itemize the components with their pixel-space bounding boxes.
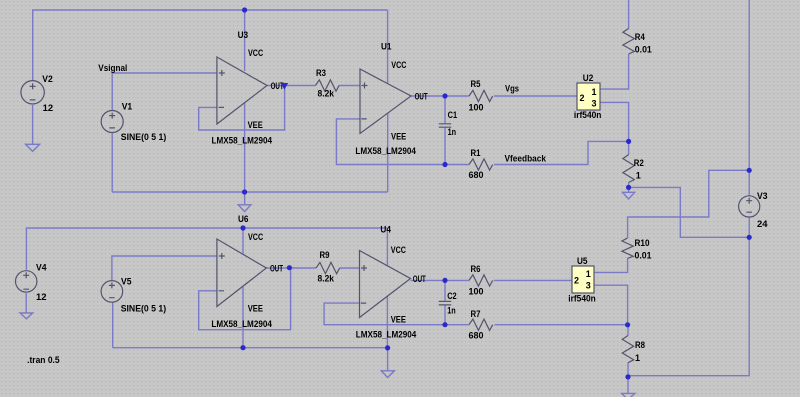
- voltage source V4, value 12: [16, 263, 47, 303]
- resistor R3, value 8.2k: [315, 68, 339, 99]
- svg-text:0.01: 0.01: [635, 45, 652, 55]
- svg-text:R2: R2: [634, 158, 644, 168]
- ground below V2: [26, 104, 40, 151]
- svg-text:100: 100: [469, 103, 484, 113]
- svg-text:8.2k: 8.2k: [318, 274, 335, 284]
- svg-text:Vsignal: Vsignal: [98, 63, 127, 73]
- svg-text:V1: V1: [122, 102, 133, 112]
- svg-text:V4: V4: [36, 263, 47, 273]
- svg-text:C2: C2: [447, 291, 457, 301]
- wire U5 source pin3 down to R8 top node: [594, 285, 628, 325]
- svg-text:VCC: VCC: [248, 48, 264, 58]
- wire R3 to U1 +in: [339, 85, 360, 87]
- node Vfeedback junction at R2 top: [626, 139, 631, 144]
- wire U6 VEE pin: [242, 287, 244, 348]
- wire R7 to R8 top node: [495, 324, 628, 326]
- svg-text:OUT: OUT: [271, 81, 284, 91]
- wire V1 minus to VEE bus: [111, 133, 113, 192]
- wire node Vsignal: V1 plus to U3 +in: [112, 73, 217, 110]
- svg-text:V2: V2: [42, 74, 53, 84]
- capacitor C2, value 1n: [439, 280, 457, 324]
- svg-text:U6: U6: [238, 214, 249, 224]
- wire R2 bottom lead: [628, 183, 630, 188]
- wire R8 top lead: [627, 325, 629, 336]
- svg-text:2: 2: [574, 276, 579, 286]
- ground on top VEE bus at U3: [238, 192, 251, 212]
- svg-text:VEE: VEE: [391, 131, 406, 141]
- svg-text:12: 12: [43, 103, 54, 113]
- voltage source V3, value 24: [739, 191, 768, 229]
- ground below V4: [20, 292, 33, 319]
- wire R9 to U4 +in: [340, 267, 360, 269]
- svg-text:R8: R8: [635, 340, 645, 350]
- node bottom VEE bus at U4 VEE / ground: [385, 345, 390, 350]
- svg-text:OUT: OUT: [270, 263, 283, 273]
- svg-text:1: 1: [586, 269, 591, 279]
- wire R2 bottom / ground to V3 minus: [629, 187, 750, 237]
- svg-text:LMX58_LM2904: LMX58_LM2904: [356, 330, 417, 340]
- node bottom VEE bus at U6 VEE: [240, 345, 245, 350]
- node junction on V+ rail at U3 VCC: [242, 7, 247, 12]
- wire U1 VEE pin: [387, 113, 389, 192]
- svg-text:1: 1: [636, 171, 641, 181]
- wire U2 source pin3 down to Vfeedback node: [600, 102, 629, 141]
- node C2 bottom / R7 left: [442, 322, 447, 327]
- wire R1 to jog up to Vfeedback node: [494, 141, 629, 164]
- capacitor C1, value 1n: [439, 96, 457, 165]
- svg-text:U3: U3: [238, 30, 249, 40]
- svg-text:2: 2: [580, 93, 585, 103]
- wire U1 feedback: -in to C1 bottom node: [336, 119, 445, 165]
- node R2 bottom / ground: [626, 185, 631, 190]
- svg-text:U4: U4: [380, 225, 391, 235]
- svg-text:R3: R3: [316, 68, 326, 78]
- voltage source V5, value SINE(0 5 1): [101, 277, 166, 314]
- node V3 minus / R2 branch: [747, 235, 752, 240]
- wire U4 VCC pin: [386, 228, 388, 266]
- wire VEE bus (bottom section): [113, 347, 389, 349]
- node C1 bottom / R1 left: [442, 162, 447, 167]
- svg-text:8.2k: 8.2k: [318, 89, 335, 99]
- node U3 OUT junction marker: [281, 83, 289, 90]
- nmos U2 irf540n: [574, 73, 602, 120]
- voltage source V1, value SINE(0 5 1): [101, 102, 166, 143]
- wire C1 to R1: [445, 164, 469, 166]
- wire U3 OUT to R3: [267, 85, 315, 87]
- svg-text:LMX58_LM2904: LMX58_LM2904: [355, 146, 416, 156]
- svg-text:100: 100: [469, 287, 484, 297]
- svg-text:3: 3: [592, 99, 597, 109]
- nmos U5 irf540n: [568, 256, 596, 304]
- svg-text:VEE: VEE: [248, 120, 263, 130]
- resistor R4, value 0.01: [623, 29, 652, 55]
- svg-text:OUT: OUT: [415, 92, 428, 102]
- svg-text:R10: R10: [635, 238, 650, 248]
- wire U4 VEE pin: [386, 296, 388, 348]
- voltage source V2, value 12: [21, 74, 53, 113]
- svg-text:Vfeedback: Vfeedback: [505, 154, 547, 164]
- ground below R2: [623, 187, 635, 199]
- resistor R6, value 100: [469, 264, 493, 297]
- svg-text:LMX58_LM2904: LMX58_LM2904: [211, 319, 272, 329]
- svg-text:.tran 0.5: .tran 0.5: [27, 355, 60, 365]
- svg-text:U2: U2: [583, 73, 594, 83]
- wire V3 minus down and left to R8 bottom: [628, 217, 749, 376]
- wire R5 to U2 gate pin2, node Vgs: [494, 95, 577, 97]
- wire U6 feedback OUT to -in: [199, 268, 291, 330]
- wire R10 top to V3 plus node: [628, 170, 750, 238]
- svg-text:irf540n: irf540n: [574, 110, 602, 120]
- wire R4 top to top edge: [628, 0, 630, 29]
- resistor R10, value 0.01: [622, 238, 652, 261]
- svg-text:U5: U5: [577, 256, 588, 266]
- wire U4 OUT to R6: [411, 279, 470, 281]
- wire V3 plus to top edge: [748, 0, 750, 196]
- op-amp U6 LMX58_LM2904: [211, 214, 283, 329]
- svg-text:V3: V3: [757, 191, 768, 201]
- svg-text:SINE(0 5 1): SINE(0 5 1): [121, 304, 167, 314]
- svg-text:V5: V5: [121, 277, 132, 287]
- wire V4 plus to V+ rail (bottom): [26, 228, 387, 270]
- node junction on bottom V+ rail at U6 VCC: [240, 225, 245, 230]
- node R8 bottom / ground: [625, 374, 630, 379]
- svg-text:24: 24: [757, 219, 768, 229]
- svg-text:VCC: VCC: [391, 245, 407, 255]
- wire C2 to R7: [445, 324, 469, 326]
- svg-text:U1: U1: [381, 42, 392, 52]
- svg-text:VEE: VEE: [391, 315, 406, 325]
- wire U1 VCC pin: [387, 10, 389, 84]
- svg-text:3: 3: [586, 281, 591, 291]
- svg-text:1n: 1n: [448, 127, 457, 137]
- resistor R1, value 680: [469, 148, 493, 180]
- wire U1 OUT to R5: [411, 95, 469, 97]
- ground below R8: [622, 377, 635, 397]
- node V3 plus / R10 branch: [747, 168, 752, 173]
- svg-text:C1: C1: [448, 110, 458, 120]
- op-amp U1 LMX58_LM2904: [355, 42, 428, 157]
- wire R2 top lead: [628, 141, 630, 154]
- node top VEE bus at U3 VEE / ground: [242, 189, 247, 194]
- node U6 OUT junction: [287, 265, 292, 270]
- svg-text:R6: R6: [471, 264, 481, 274]
- svg-text:SINE(0 5 1): SINE(0 5 1): [121, 132, 167, 142]
- wire U4 feedback: -in to C2 bottom node: [324, 303, 445, 325]
- svg-text:R4: R4: [635, 32, 645, 42]
- wire U3 VEE pin: [244, 102, 246, 192]
- node R8 top / U5 source: [625, 322, 630, 327]
- op-amp U3 LMX58_LM2904: [212, 30, 284, 146]
- resistor R8, value 1: [622, 336, 645, 364]
- svg-text:R1: R1: [471, 148, 481, 158]
- svg-text:VCC: VCC: [248, 232, 264, 242]
- resistor R9, value 8.2k: [316, 250, 340, 284]
- wire V2 plus to V+ rail (top): [33, 10, 388, 81]
- svg-text:R9: R9: [320, 250, 330, 260]
- op-amp U4 LMX58_LM2904: [356, 225, 426, 340]
- wire U6 VCC pin: [242, 228, 244, 254]
- svg-text:Vgs: Vgs: [505, 84, 519, 94]
- svg-text:LMX58_LM2904: LMX58_LM2904: [212, 136, 273, 146]
- wire U5 drain pin1 to R10: [594, 258, 628, 272]
- ground on bottom VEE bus at U4: [381, 348, 394, 378]
- wire V5 minus to VEE bus: [112, 302, 114, 348]
- node U1 OUT at C1 top: [442, 93, 447, 98]
- wire U6 OUT to R9: [266, 267, 316, 269]
- svg-text:1: 1: [635, 353, 640, 363]
- wire U3 VCC pin: [244, 10, 246, 71]
- wire V5 plus to U6 +in: [112, 256, 217, 281]
- svg-text:1n: 1n: [447, 306, 456, 316]
- svg-text:680: 680: [469, 170, 484, 180]
- wire R6 to U5 gate pin2: [494, 279, 572, 281]
- svg-text:680: 680: [469, 331, 484, 341]
- wire U2 drain pin1 to R4: [600, 54, 629, 89]
- resistor R7, value 680: [469, 309, 493, 341]
- svg-text:R7: R7: [471, 309, 481, 319]
- resistor R5, value 100: [469, 79, 493, 113]
- svg-text:irf540n: irf540n: [568, 294, 596, 304]
- wire VEE bus (top section): [112, 191, 388, 193]
- wire R8 bottom lead: [627, 363, 629, 377]
- svg-text:R5: R5: [471, 79, 481, 89]
- node U4 OUT at C2 top: [442, 278, 447, 283]
- wire U3 feedback OUT to -in: [199, 86, 285, 131]
- svg-text:OUT: OUT: [413, 274, 426, 284]
- resistor R2, value 1: [623, 155, 644, 183]
- svg-text:12: 12: [36, 292, 47, 302]
- svg-text:VEE: VEE: [248, 303, 263, 313]
- svg-text:1: 1: [592, 87, 597, 97]
- svg-text:VCC: VCC: [391, 60, 407, 70]
- svg-text:0.01: 0.01: [635, 251, 652, 261]
